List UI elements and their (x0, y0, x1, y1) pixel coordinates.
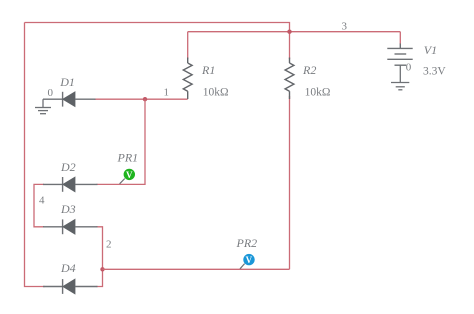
wire R2 bottom vertical (289, 96, 291, 269)
label D4 (60, 261, 76, 275)
probe PR2 voltage (240, 254, 255, 269)
net 0 at V1 ground (406, 61, 412, 73)
svg-text:3.3V: 3.3V (423, 65, 446, 77)
svg-text:1: 1 (164, 86, 170, 98)
wire R1 top drop (187, 32, 189, 59)
svg-text:D2: D2 (60, 160, 76, 174)
svg-text:V1: V1 (424, 43, 437, 57)
svg-text:V: V (246, 255, 253, 265)
net 1 (164, 86, 170, 98)
wire V1 top drop (399, 32, 401, 44)
svg-text:10kΩ: 10kΩ (305, 87, 331, 99)
wire mid horizontal node 3 (188, 31, 401, 33)
svg-text:3: 3 (342, 21, 348, 33)
resistor R2 (285, 58, 294, 100)
svg-text:R2: R2 (302, 63, 316, 77)
diode D3 (43, 219, 98, 234)
label R2 (302, 63, 316, 77)
svg-text:2: 2 (106, 238, 112, 250)
ground at V1 node 0 (391, 65, 409, 90)
junction node 3 (287, 30, 291, 34)
net 3 (342, 21, 348, 33)
diode D2 (43, 177, 98, 192)
wire node 4 link D2-D3 (34, 184, 44, 226)
wire R1 bottom to node 1 (95, 98, 188, 100)
svg-text:0: 0 (48, 87, 54, 99)
svg-text:R1: R1 (201, 63, 215, 77)
value 10kΩ R1 (203, 87, 229, 99)
ground at D1 node 0 (35, 99, 51, 114)
resistor R1 (183, 58, 192, 100)
battery V1 (387, 44, 412, 66)
svg-text:4: 4 (39, 195, 45, 207)
net 0 at D1 (48, 87, 54, 99)
wire R2 top drop (289, 32, 291, 59)
net 4 (39, 195, 45, 207)
diode D1 (43, 92, 96, 107)
net 2 (106, 238, 112, 250)
label D1 (59, 75, 75, 89)
svg-text:D4: D4 (60, 261, 76, 275)
label D3 (60, 202, 76, 216)
probe PR1 voltage (120, 169, 135, 184)
junction node 1 (143, 97, 147, 101)
wire node 1 down to D2 (97, 99, 146, 184)
label PR2 (236, 236, 258, 250)
label PR1 (117, 150, 139, 164)
svg-text:10kΩ: 10kΩ (203, 87, 229, 99)
wire top horizontal with jog down at x=289.5 (25, 23, 290, 32)
label D2 (60, 160, 76, 174)
svg-text:V: V (126, 170, 133, 180)
diode D4 (43, 279, 98, 294)
junction node 2 (100, 267, 104, 271)
wire node 2 horizontal to R2 bottom (103, 268, 290, 270)
svg-text:D3: D3 (60, 202, 76, 216)
label V1 (424, 43, 437, 57)
svg-text:D1: D1 (59, 75, 75, 89)
wire D3 right corner down node 2 (97, 227, 103, 287)
svg-text:0: 0 (406, 61, 412, 73)
svg-text:PR2: PR2 (236, 236, 258, 250)
label R1 (201, 63, 215, 77)
wire left vertical with bottom run to D4 (25, 23, 46, 287)
value 3.3V V1 (423, 65, 446, 77)
value 10kΩ R2 (305, 87, 331, 99)
svg-text:PR1: PR1 (117, 150, 139, 164)
